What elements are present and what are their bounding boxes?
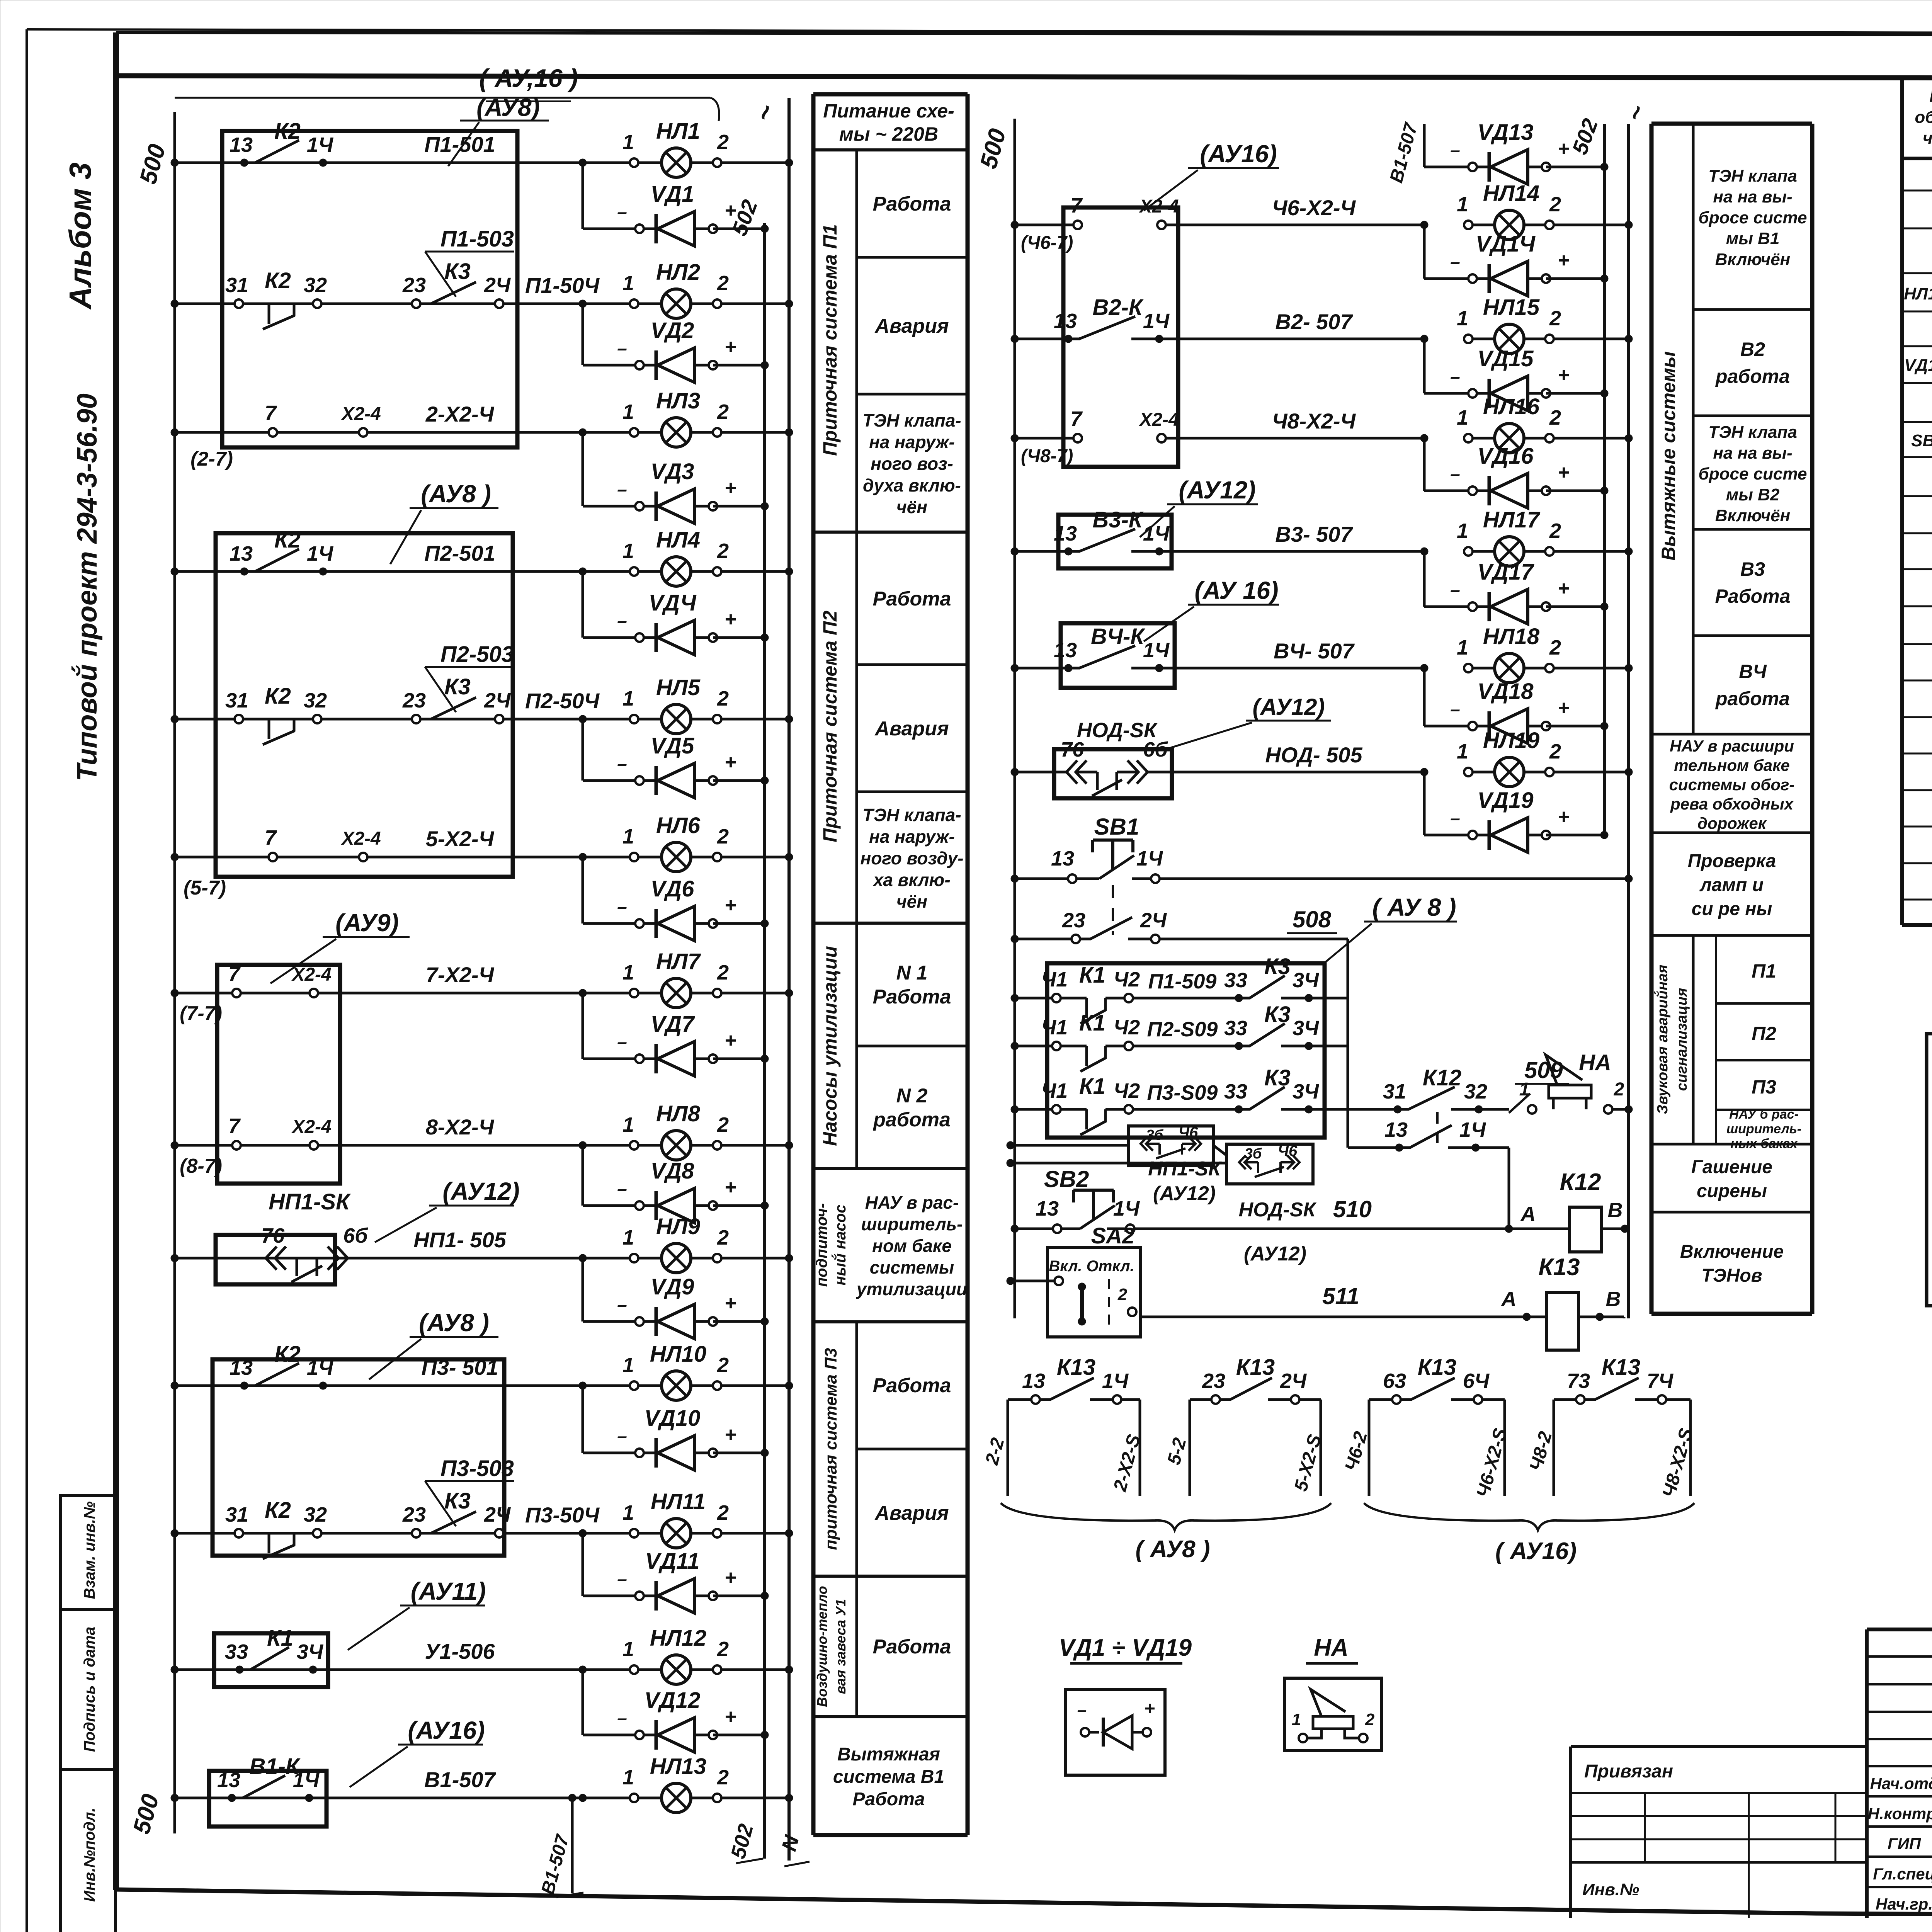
label column 1 frame: [813, 94, 968, 1835]
svg-text:П1: П1: [1752, 960, 1776, 982]
svg-text:HЛ9: HЛ9: [656, 1214, 700, 1239]
svg-text:HЛ16: HЛ16: [1483, 394, 1540, 419]
legend diode VD1-VD19: [1059, 1634, 1192, 1775]
wire rung &#1055;1-503: [171, 300, 634, 308]
enclosure box NOD-SL column2: [1054, 694, 1331, 798]
svg-text:НП1-SК: НП1-SК: [269, 1189, 351, 1214]
svg-text:НП1-SК: НП1-SК: [1148, 1158, 1222, 1180]
small travel switch NP1-SL legend box: [1007, 1124, 1226, 1205]
svg-text:+: +: [724, 1423, 736, 1446]
svg-text:HЛ8: HЛ8: [656, 1101, 701, 1126]
svg-text:сигнализация: сигнализация: [1674, 988, 1690, 1091]
svg-text:32: 32: [304, 1503, 327, 1526]
svg-text:1: 1: [622, 539, 634, 563]
svg-text:13: 13: [230, 542, 253, 565]
svg-text:К13: К13: [1057, 1355, 1095, 1380]
contact &#1050;2 31/32: [225, 684, 327, 745]
svg-text:В3-К: В3-К: [1092, 507, 1143, 532]
svg-text:К2: К2: [265, 684, 291, 709]
svg-text:SВ1: SВ1: [1094, 814, 1139, 840]
svg-text:+: +: [1558, 461, 1569, 484]
svg-text:2Ч: 2Ч: [1280, 1369, 1307, 1393]
svg-text:Приточная система П1: Приточная система П1: [819, 224, 841, 456]
svg-text:23: 23: [402, 1503, 426, 1526]
cell proverka lamp: [1688, 851, 1776, 919]
svg-text:Насосы утилизации: Насосы утилизации: [819, 946, 841, 1146]
contact K1 &#1055;2-S09 rung: [1011, 1002, 1348, 1071]
svg-text:Гашение: Гашение: [1691, 1157, 1772, 1177]
svg-text:А: А: [1501, 1287, 1517, 1311]
svg-text:подпиточ-: подпиточ-: [813, 1203, 830, 1287]
relay coil K12: [1505, 1169, 1629, 1252]
enclosure box NP1-SL AU12: [216, 1177, 520, 1284]
svg-text:VД11: VД11: [645, 1549, 700, 1574]
svg-text:2Ч: 2Ч: [484, 274, 511, 297]
cell avaria P2: [874, 718, 949, 740]
svg-text:В3: В3: [1740, 558, 1765, 580]
svg-text:Ч8-Х2-Ч: Ч8-Х2-Ч: [1272, 409, 1356, 433]
svg-text:–: –: [617, 1179, 627, 1199]
svg-text:К1: К1: [1079, 963, 1105, 988]
diode VD19 column2: [1424, 772, 1608, 852]
svg-text:+: +: [1558, 577, 1569, 600]
svg-text:7-Х2-Ч: 7-Х2-Ч: [426, 963, 495, 987]
svg-text:В3- 507: В3- 507: [1275, 522, 1353, 546]
wire rung &#1063;8-&#1061;2-&#1063;: [1011, 407, 1428, 466]
svg-text:(АУ12): (АУ12): [1244, 1243, 1306, 1265]
svg-text:3Ч: 3Ч: [297, 1640, 324, 1663]
svg-text:VД1: VД1: [651, 182, 694, 207]
contact &#1042;1-&#1050; 13/1&#1063;: [217, 1754, 320, 1802]
svg-text:2: 2: [717, 1638, 729, 1661]
svg-text:Вытяжная: Вытяжная: [837, 1744, 940, 1765]
label group zavesa: [814, 1586, 849, 1707]
svg-text:Ч1: Ч1: [1041, 1079, 1068, 1102]
cell avaria P1: [874, 315, 949, 337]
svg-text:П1-50Ч: П1-50Ч: [525, 273, 600, 298]
enclosure box AU8 #2: [184, 480, 513, 899]
diode VD11 column1: [583, 1533, 769, 1613]
svg-text:VД13: VД13: [1477, 120, 1533, 145]
svg-text:Н.контр.: Н.контр.: [1868, 1804, 1932, 1823]
svg-text:SВ1,SВ2: SВ1,SВ2: [1911, 431, 1932, 450]
svg-text:( АУ 8 ): ( АУ 8 ): [1372, 893, 1456, 921]
svg-text:П1-503: П1-503: [440, 226, 514, 252]
enclosure box AU9: [180, 909, 410, 1184]
svg-text:2: 2: [1549, 307, 1561, 330]
svg-text:ширитель-: ширитель-: [1726, 1122, 1801, 1136]
lamp HL2: [525, 260, 793, 318]
svg-text:(АУ12): (АУ12): [1253, 694, 1325, 720]
svg-text:П2-503: П2-503: [440, 642, 514, 667]
svg-text:К3: К3: [1264, 1065, 1291, 1090]
svg-text:7: 7: [228, 1114, 241, 1138]
svg-text:HЛ12: HЛ12: [650, 1626, 706, 1651]
diode VD13 column2: [1424, 120, 1608, 184]
net 500 bus column 1: [134, 112, 175, 1833]
svg-text:HЛ13: HЛ13: [650, 1754, 706, 1779]
diode VD8 column1: [583, 1145, 769, 1223]
diode VD17 column2: [1424, 551, 1608, 624]
diode VD10 column1: [583, 1386, 769, 1470]
svg-text:7: 7: [265, 401, 277, 425]
svg-text:1: 1: [622, 400, 634, 423]
svg-text:VД18: VД18: [1477, 679, 1534, 704]
svg-text:+: +: [724, 1706, 736, 1728]
net 500 bus column 2: [975, 119, 1015, 1318]
svg-text:13: 13: [1051, 847, 1074, 870]
svg-text:Ч2: Ч2: [1114, 968, 1140, 991]
svg-text:Работа: Работа: [873, 1636, 951, 1658]
svg-text:VД1Ч: VД1Ч: [1476, 231, 1536, 257]
svg-text:3Ч: 3Ч: [1293, 969, 1320, 992]
contact K1 33/34: [225, 1626, 324, 1673]
svg-text:HЛ17: HЛ17: [1483, 507, 1541, 532]
svg-text:2: 2: [1549, 519, 1561, 543]
svg-text:1: 1: [622, 1226, 634, 1249]
svg-text:HЛ10: HЛ10: [650, 1342, 706, 1367]
wire rung &#1063;6-&#1061;2-&#1063;: [1011, 194, 1428, 253]
svg-text:VД12: VД12: [644, 1688, 700, 1713]
svg-text:63: 63: [1383, 1369, 1406, 1393]
svg-text:К12: К12: [1423, 1065, 1461, 1090]
svg-text:Ч2: Ч2: [1114, 1016, 1140, 1039]
terminal 7 / &#1061;2-4: [265, 826, 583, 861]
svg-text:П2-50Ч: П2-50Ч: [525, 689, 600, 713]
wire rung &#1055;2-503: [171, 715, 634, 723]
svg-text:К3: К3: [444, 674, 471, 699]
svg-text:Гл.спец: Гл.спец: [1873, 1865, 1932, 1883]
svg-text:Ч6: Ч6: [1179, 1124, 1198, 1141]
svg-text:К2: К2: [274, 1342, 301, 1367]
svg-text:–: –: [1450, 252, 1460, 272]
wire rung 2-&#1061;2-&#1063;: [171, 429, 634, 436]
svg-text:HЛ4: HЛ4: [656, 527, 700, 553]
svg-text:HЛ1: HЛ1: [656, 119, 700, 144]
cell V2 rabota: [1715, 338, 1790, 387]
svg-text:У1-506: У1-506: [425, 1639, 495, 1663]
lamp HL6: [426, 813, 793, 872]
svg-text:Включён: Включён: [1715, 506, 1791, 525]
svg-text:рева обходных: рева обходных: [1670, 795, 1794, 813]
svg-text:на на вы-: на на вы-: [1713, 187, 1792, 206]
svg-text:(АУ12): (АУ12): [1153, 1182, 1216, 1205]
cell avaria P3: [874, 1502, 949, 1524]
title block signatures: [1868, 1767, 1932, 1913]
svg-text:+: +: [724, 1176, 736, 1199]
svg-text:VД1 ÷ VД19: VД1 ÷ VД19: [1059, 1634, 1192, 1661]
svg-text:К1: К1: [267, 1626, 293, 1651]
svg-text:(АУ12): (АУ12): [1179, 476, 1255, 504]
svg-text:32: 32: [304, 689, 327, 712]
svg-text:HЛ5: HЛ5: [656, 675, 701, 700]
svg-text:23: 23: [402, 689, 426, 712]
svg-text:В1-507: В1-507: [424, 1767, 497, 1792]
svg-text:чён: чён: [896, 497, 927, 517]
svg-text:+: +: [1558, 138, 1569, 160]
svg-text:утилизации: утилизации: [856, 1279, 967, 1299]
wire rung 8-&#1061;2-&#1063;: [171, 1141, 634, 1149]
svg-text:Включён: Включён: [1715, 250, 1791, 269]
svg-text:31: 31: [225, 1503, 248, 1526]
svg-text:НП1- 505: НП1- 505: [413, 1228, 506, 1252]
svg-text:бросе систе: бросе систе: [1699, 208, 1807, 227]
contact K3 23/24: [402, 1488, 511, 1537]
diode VD5 column1: [583, 719, 769, 798]
svg-text:тельном баке: тельном баке: [1674, 756, 1790, 774]
svg-text:+: +: [724, 608, 736, 631]
svg-text:31: 31: [1383, 1080, 1406, 1103]
svg-text:Работа: Работа: [873, 1374, 951, 1397]
svg-text:N 2: N 2: [896, 1085, 928, 1107]
cell rabota P1: [873, 193, 951, 215]
lamp HL14: [1272, 181, 1633, 240]
svg-text:(АУ8 ): (АУ8 ): [421, 480, 491, 508]
svg-text:Проверка: Проверка: [1688, 851, 1776, 871]
diode VD18 column2: [1424, 668, 1608, 743]
svg-text:–: –: [617, 479, 627, 499]
bracket line AU16 top: [175, 64, 719, 121]
svg-text:(7-7): (7-7): [180, 1002, 222, 1025]
svg-text:П2: П2: [1752, 1023, 1776, 1044]
svg-text:система В1: система В1: [833, 1767, 944, 1787]
wire rung 5-&#1061;2-&#1063;: [171, 853, 634, 861]
cell V4 rabota: [1715, 661, 1790, 709]
label group P1: [819, 224, 841, 456]
contact &#1050;2 13/1&#1063;: [230, 119, 334, 167]
svg-text:мы В1: мы В1: [1726, 229, 1780, 248]
svg-text:VД5: VД5: [651, 733, 695, 759]
svg-text:К13: К13: [1538, 1254, 1580, 1281]
svg-text:+: +: [724, 199, 736, 222]
svg-text:К13: К13: [1418, 1355, 1456, 1380]
terminal 7 / &#1061;2-4: [228, 962, 583, 997]
wire rung &#1055;1-501: [171, 159, 634, 167]
svg-text:–: –: [617, 338, 627, 358]
svg-text:К3: К3: [444, 259, 471, 284]
svg-text:–: –: [617, 611, 627, 631]
wire rung 7-&#1061;2-&#1063;: [171, 989, 634, 997]
svg-text:1Ч: 1Ч: [1143, 639, 1170, 662]
contact K13 13/1&#1063; chain: [981, 1355, 1145, 1496]
net V1-507 bus column 2: [1386, 120, 1424, 185]
svg-text:2: 2: [717, 539, 729, 563]
svg-text:2: 2: [717, 131, 729, 154]
lamp HL4: [424, 527, 793, 586]
svg-text:ха вклю-: ха вклю-: [872, 870, 950, 890]
svg-text:–: –: [1450, 580, 1460, 600]
svg-text:23: 23: [402, 274, 426, 297]
enclosure box AU8 509 group: [1047, 893, 1457, 1138]
svg-text:VД16: VД16: [1477, 444, 1534, 469]
svg-text:Поз.: Поз.: [1929, 87, 1932, 106]
svg-text:HЛ14: HЛ14: [1483, 181, 1539, 206]
svg-text:HЛ7: HЛ7: [656, 949, 701, 974]
svg-text:ных баках: ных баках: [1730, 1136, 1798, 1151]
spec table frame: [1902, 78, 1932, 925]
svg-text:Авария: Авария: [874, 315, 949, 337]
svg-text:1: 1: [1292, 1710, 1301, 1729]
svg-text:1: 1: [622, 1501, 634, 1524]
lamp HL7: [426, 949, 793, 1008]
svg-text:ВЧ: ВЧ: [1739, 661, 1767, 682]
svg-text:HЛ1÷HЛ19: HЛ1÷HЛ19: [1904, 284, 1932, 303]
cell NAU bak: [856, 1192, 967, 1299]
contact &#1042;3-&#1050; rung: [1011, 507, 1428, 555]
svg-text:(2-7): (2-7): [190, 448, 233, 470]
svg-text:+: +: [1558, 697, 1569, 719]
svg-text:НА: НА: [1314, 1634, 1349, 1661]
svg-text:бросе систе: бросе систе: [1699, 464, 1807, 483]
svg-text:Вытяжные системы: Вытяжные системы: [1658, 351, 1679, 561]
diode VD6 column1: [583, 857, 769, 941]
svg-text:Ч6: Ч6: [1278, 1143, 1298, 1160]
lamp HL15: [1275, 295, 1633, 354]
svg-text:VД1÷VД19: VД1÷VД19: [1904, 356, 1932, 375]
svg-text:Х2-4: Х2-4: [1138, 410, 1179, 430]
svg-text:вая завеса У1: вая завеса У1: [833, 1599, 849, 1694]
svg-text:К1: К1: [1079, 1010, 1105, 1036]
svg-text:Инв.№подл.: Инв.№подл.: [81, 1808, 98, 1902]
svg-text:НОД-SК: НОД-SК: [1077, 719, 1158, 742]
svg-text:Нач.отд: Нач.отд: [1870, 1774, 1932, 1793]
push button SB1: [1011, 814, 1633, 883]
label column 2 frame: [1651, 124, 1812, 1314]
svg-text:Ч1: Ч1: [1041, 968, 1068, 991]
svg-text:13: 13: [230, 133, 253, 156]
cell TEN P1: [862, 410, 961, 517]
enclosure box AU8 #3: [213, 1309, 504, 1556]
svg-text:2: 2: [717, 1113, 729, 1136]
svg-text:2: 2: [1549, 406, 1561, 429]
svg-text:В: В: [1606, 1287, 1621, 1311]
svg-text:2Ч: 2Ч: [484, 1503, 511, 1526]
cell TEN V2: [1699, 423, 1807, 525]
lamp HL18: [1274, 624, 1633, 683]
svg-text:( АУ16): ( АУ16): [1495, 1538, 1577, 1565]
svg-text:Х2-4: Х2-4: [340, 404, 381, 424]
svg-text:–: –: [1450, 699, 1460, 719]
svg-text:В2- 507: В2- 507: [1275, 310, 1353, 334]
svg-text:VД19: VД19: [1477, 788, 1533, 813]
svg-text:(АУ8 ): (АУ8 ): [419, 1309, 489, 1337]
svg-text:си ре ны: си ре ны: [1692, 899, 1772, 919]
svg-text:( АУ8 ): ( АУ8 ): [1135, 1536, 1210, 1563]
svg-text:НОД- 505: НОД- 505: [1265, 743, 1362, 767]
svg-text:+: +: [724, 336, 736, 358]
svg-text:2Ч: 2Ч: [1140, 909, 1167, 932]
svg-text:ширитель-: ширитель-: [861, 1214, 963, 1234]
svg-text:(5-7): (5-7): [184, 877, 226, 899]
svg-text:НАУ в расшири: НАУ в расшири: [1670, 737, 1794, 755]
svg-text:1: 1: [1457, 193, 1468, 216]
lamp HL19: [1265, 728, 1633, 787]
svg-text:В2-К: В2-К: [1092, 295, 1143, 320]
svg-text:1: 1: [622, 1766, 634, 1789]
svg-text:1: 1: [1519, 1079, 1530, 1100]
svg-text:ТЭН клапа-: ТЭН клапа-: [862, 805, 961, 825]
margin text project number: [71, 393, 103, 781]
svg-text:1: 1: [622, 131, 634, 154]
svg-text:1: 1: [1457, 636, 1468, 659]
svg-text:3Ч: 3Ч: [1293, 1080, 1320, 1103]
svg-text:К3: К3: [444, 1488, 471, 1514]
label &#1055;1-503 with leader: [425, 226, 514, 297]
diode VD15 column2: [1424, 339, 1608, 411]
svg-text:+: +: [1144, 1699, 1155, 1719]
svg-text:+: +: [724, 477, 736, 499]
svg-text:VД15: VД15: [1477, 346, 1534, 371]
svg-text:+: +: [724, 894, 736, 917]
svg-text:П1-509: П1-509: [1148, 970, 1217, 993]
svg-text:обозна-: обозна-: [1915, 108, 1932, 127]
title block frame: [1867, 1629, 1932, 1918]
svg-text:Включение: Включение: [1680, 1242, 1784, 1262]
svg-text:33: 33: [1224, 1017, 1247, 1040]
svg-text:на наруж-: на наруж-: [869, 432, 955, 452]
svg-text:6б: 6б: [343, 1224, 368, 1247]
svg-text:2: 2: [717, 1354, 729, 1377]
svg-text:HЛ18: HЛ18: [1483, 624, 1540, 649]
svg-text:П2-501: П2-501: [424, 541, 495, 565]
svg-text:Авария: Авария: [874, 718, 949, 740]
svg-text:работа: работа: [1715, 366, 1790, 387]
svg-text:чён: чён: [896, 891, 927, 912]
svg-text:2: 2: [717, 272, 729, 295]
svg-text:работа: работа: [872, 1109, 951, 1131]
svg-text:Х2-4: Х2-4: [291, 1117, 331, 1137]
svg-text:2: 2: [717, 1766, 729, 1789]
svg-text:1: 1: [1457, 740, 1468, 763]
contact K1 &#1055;1-509 rung: [1011, 954, 1348, 1024]
svg-text:Приточная система П2: Приточная система П2: [819, 611, 841, 842]
margin stamp boxes: [60, 1495, 116, 1932]
svg-text:1Ч: 1Ч: [1143, 522, 1170, 545]
lamp HL1: [424, 119, 793, 177]
svg-text:1Ч: 1Ч: [1113, 1197, 1140, 1220]
svg-text:Альбом 3: Альбом 3: [63, 162, 97, 310]
svg-text:510: 510: [1333, 1196, 1372, 1222]
svg-text:1Ч: 1Ч: [307, 542, 334, 565]
svg-text:Ч6-Х2-Ч: Ч6-Х2-Ч: [1272, 196, 1356, 220]
svg-text:Х2-4: Х2-4: [291, 964, 331, 985]
svg-text:П3-50Ч: П3-50Ч: [525, 1503, 600, 1527]
relay coil K13 rung 511: [1140, 1254, 1624, 1350]
svg-text:HЛ19: HЛ19: [1483, 728, 1539, 753]
svg-text:НА: НА: [1579, 1050, 1611, 1075]
svg-text:(АУ11): (АУ11): [411, 1577, 486, 1605]
svg-text:VД10: VД10: [644, 1406, 700, 1431]
svg-text:31: 31: [225, 689, 248, 712]
svg-text:К13: К13: [1602, 1355, 1640, 1380]
svg-text:33: 33: [1224, 969, 1247, 992]
table row SB1 SB2: [1911, 428, 1932, 451]
switch SA2: [1007, 1223, 1140, 1337]
svg-text:–: –: [1450, 140, 1460, 160]
svg-text:+: +: [724, 1292, 736, 1315]
svg-text:1: 1: [622, 1354, 634, 1377]
svg-text:13: 13: [1054, 639, 1077, 662]
svg-text:–: –: [617, 1032, 627, 1052]
contact &#1050;2 13/1&#1063;: [230, 527, 334, 575]
contact K3 23/24: [402, 259, 511, 308]
svg-text:2: 2: [717, 961, 729, 984]
svg-text:HЛ11: HЛ11: [651, 1489, 706, 1514]
contact K12 31/32 and siren HA rung 509: [1309, 1050, 1633, 1114]
svg-text:+: +: [724, 1029, 736, 1052]
svg-text:23: 23: [1062, 909, 1085, 932]
svg-text:на наруж-: на наруж-: [869, 827, 955, 847]
